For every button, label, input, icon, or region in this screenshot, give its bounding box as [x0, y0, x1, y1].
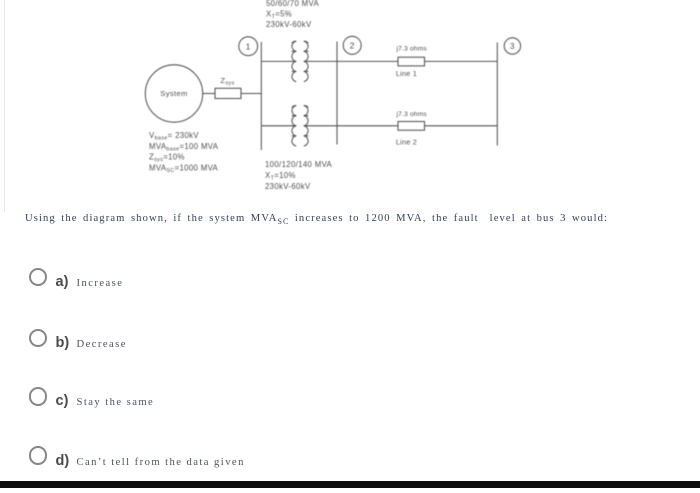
- node 2 circle: [343, 36, 361, 54]
- svg-text:2: 2: [350, 40, 355, 50]
- svg-text:Vbase= 230kV: Vbase= 230kV: [149, 131, 199, 142]
- bus 2 (vertical bus bar): [336, 42, 338, 145]
- transformer T2 primary winding: [292, 106, 296, 146]
- svg-text:230kV-60kV: 230kV-60kV: [265, 182, 311, 191]
- option d text: [77, 457, 245, 468]
- option a radio button: [29, 268, 48, 287]
- svg-text:3: 3: [510, 42, 515, 51]
- svg-text:Line 2: Line 2: [396, 137, 417, 146]
- wire bus1 to transformer T1: [261, 60, 293, 62]
- svg-text:System: System: [160, 89, 187, 98]
- svg-text:Zsys=10%: Zsys=10%: [149, 153, 185, 164]
- svg-text:230kV-60kV: 230kV-60kV: [266, 20, 312, 29]
- bus 3 (vertical bus bar): [496, 43, 498, 146]
- svg-text:1: 1: [246, 41, 251, 51]
- svg-text:XT=10%: XT=10%: [265, 171, 296, 182]
- faint scan page edge: [4, 0, 5, 212]
- Line 1 impedance box: [398, 57, 425, 66]
- svg-text:MVAbase=100 MVA: MVAbase=100 MVA: [149, 142, 219, 153]
- transformer T1 secondary winding: [304, 41, 308, 81]
- svg-text:MVASC=1000 MVA: MVASC=1000 MVA: [149, 163, 219, 174]
- svg-text:Line 1: Line 1: [396, 69, 417, 78]
- svg-text:j7.3 ohms: j7.3 ohms: [396, 111, 428, 118]
- svg-text:Zsys: Zsys: [221, 76, 235, 87]
- wire Zsys to bus 1: [241, 93, 261, 95]
- Line 2 impedance box: [398, 122, 425, 131]
- wire transformer T2 to bus 2: [307, 125, 338, 127]
- wire bus2 to Line 1 impedance: [337, 60, 398, 62]
- wire bus1 to transformer T2: [261, 125, 293, 127]
- svg-text:j7.3 ohms: j7.3 ohms: [396, 45, 428, 52]
- bus 1 (vertical bus bar): [260, 42, 262, 150]
- option a letter: [56, 274, 69, 290]
- option b radio button: [29, 329, 48, 348]
- wire generator to Zsys: [203, 93, 215, 95]
- wire transformer T1 to bus 2: [307, 60, 338, 62]
- option d letter: [56, 453, 70, 469]
- wire bus2 to Line 2 impedance: [337, 125, 398, 127]
- wire Line 1 to bus 3: [425, 60, 498, 62]
- one-line power system diagram: [0, 0, 700, 205]
- bottom black bar: [0, 481, 700, 488]
- transformer T1 primary winding: [292, 41, 296, 81]
- option b text: [77, 339, 127, 350]
- option c letter: [56, 393, 69, 409]
- svg-text:50/60/70 MVA: 50/60/70 MVA: [266, 0, 319, 8]
- svg-text:100/120/140 MVA: 100/120/140 MVA: [265, 160, 333, 169]
- node 1 circle: [239, 37, 258, 56]
- wire Line 2 to bus 3: [425, 125, 498, 127]
- generator "System" circle: [145, 65, 202, 122]
- option d radio button: [29, 446, 48, 465]
- question text: [25, 213, 608, 226]
- option b letter: [56, 335, 70, 351]
- option c radio button: [29, 387, 48, 406]
- svg-text:XT=5%: XT=5%: [266, 10, 292, 21]
- node 3 circle: [504, 38, 520, 54]
- transformer T2 secondary winding: [304, 106, 308, 146]
- option c text: [77, 397, 155, 408]
- resistor Zsys (system impedance box): [215, 88, 241, 98]
- option a text: [77, 278, 124, 289]
